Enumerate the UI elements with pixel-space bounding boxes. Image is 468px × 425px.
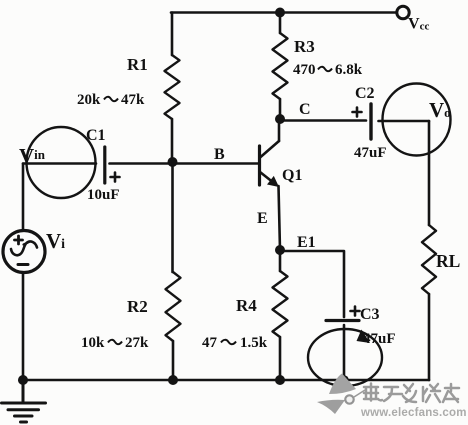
wire R3 bottom	[279, 99, 282, 119]
svg-text:B: B	[214, 146, 225, 163]
label R4 value	[202, 335, 268, 351]
capacitor C1	[103, 147, 106, 183]
svg-text:R3: R3	[294, 37, 315, 56]
node B junction	[168, 157, 178, 167]
svg-text:E: E	[257, 210, 268, 227]
svg-text:C1: C1	[86, 127, 106, 144]
wire ground rail	[23, 379, 429, 382]
wire RL bottom	[428, 294, 431, 380]
wire output down	[428, 121, 431, 225]
Vcc terminal	[397, 6, 409, 18]
svg-text:C3: C3	[360, 306, 380, 323]
wire R4 top	[279, 250, 282, 271]
wire emitter down	[279, 186, 281, 250]
capacitor C2	[369, 104, 372, 139]
svg-text:R2: R2	[127, 297, 148, 316]
svg-text:RL: RL	[436, 251, 460, 271]
svg-text:Vcc: Vcc	[408, 16, 429, 33]
wire top rail	[171, 11, 396, 14]
capacitor C2 plus sign	[353, 108, 362, 117]
svg-text:47: 47	[202, 335, 218, 351]
svg-text:R4: R4	[236, 296, 257, 315]
svg-text:R1: R1	[127, 55, 148, 74]
svg-text:47uF: 47uF	[354, 145, 387, 161]
annotation circle around C1	[27, 127, 96, 198]
node R4-ground junction	[275, 375, 285, 385]
wire Vi to ground rail	[22, 273, 25, 381]
svg-text:E1: E1	[297, 234, 316, 251]
node ground-left junction	[18, 375, 28, 385]
node R2-ground junction	[168, 375, 178, 385]
source Vi	[3, 231, 45, 273]
resistor R2	[166, 272, 181, 341]
annotation circle around Vo	[383, 84, 451, 156]
node C junction	[275, 114, 285, 124]
svg-text:C2: C2	[355, 85, 375, 102]
wire E1 to C3 branch	[280, 251, 344, 317]
watermark logo	[317, 374, 365, 415]
svg-text:27k: 27k	[125, 335, 149, 351]
wire R2 bottom	[172, 341, 175, 380]
svg-text:C: C	[299, 101, 311, 118]
wire input down to Vi	[22, 164, 25, 231]
svg-text:47k: 47k	[121, 92, 145, 108]
node C3-ground junction	[339, 375, 349, 385]
svg-text:10uF: 10uF	[87, 187, 120, 203]
resistor R3	[273, 33, 288, 99]
capacitor C3 plus sign	[351, 307, 360, 316]
wire R1 top	[171, 13, 174, 56]
wire C2 to output corner	[379, 120, 430, 123]
svg-text:470: 470	[293, 62, 316, 78]
wire R1 bottom	[171, 119, 174, 163]
svg-text:10k: 10k	[81, 335, 105, 351]
label R1 value	[77, 92, 145, 108]
wire R3 top	[279, 13, 282, 34]
ground	[2, 380, 46, 422]
label R2 value	[81, 335, 149, 351]
wire C1 to base	[110, 162, 259, 165]
node E1 junction	[275, 245, 285, 255]
wire R4 bottom	[279, 337, 282, 380]
label R3 value	[293, 62, 363, 78]
svg-text:6.8k: 6.8k	[335, 62, 363, 78]
svg-text:www.elecfans.com: www.elecfans.com	[360, 407, 467, 419]
svg-text:1.5k: 1.5k	[240, 335, 268, 351]
transistor Q1	[260, 119, 280, 187]
svg-text:Vi: Vi	[46, 229, 65, 253]
annotation circle around C3	[308, 329, 382, 386]
annotation arrowhead on C3 circle	[357, 330, 371, 344]
watermark text 电子发烧友	[364, 384, 459, 403]
capacitor C1 plus sign	[111, 173, 120, 182]
wire collector node to C2	[280, 119, 366, 122]
node top junction	[275, 8, 285, 18]
wire input left segment	[23, 162, 96, 165]
resistor R1	[165, 55, 180, 119]
svg-text:47uF: 47uF	[363, 331, 396, 347]
resistor R4	[273, 271, 288, 337]
resistor RL	[422, 225, 436, 294]
wire R2 top	[171, 163, 174, 272]
capacitor C3	[326, 321, 359, 381]
svg-text:20k: 20k	[77, 92, 101, 108]
svg-text:Q1: Q1	[282, 167, 302, 184]
